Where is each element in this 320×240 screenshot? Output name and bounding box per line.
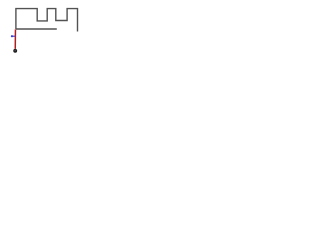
wire mid horizontal baseline: [16, 28, 57, 30]
node blue pin cursor: [12, 35, 15, 37]
wire battlement waveform trace: [16, 9, 78, 32]
wire red pen trail: [14, 29, 16, 49]
node turtle dot: [13, 49, 17, 53]
